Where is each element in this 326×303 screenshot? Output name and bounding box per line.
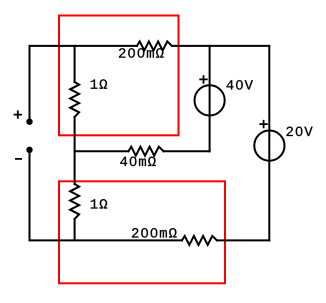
resistor 1 Ohm lower (70, 184, 79, 219)
source V2 20V circle (254, 131, 284, 161)
value label 20V (286, 127, 312, 137)
resistor 200mOhm bottom (182, 236, 217, 245)
value label 200mOhm bottom (132, 228, 177, 238)
wire bottom horizontal right (217, 239, 269, 241)
wire 40V branch vertical (209, 46, 211, 151)
wire inner vertical upper (74, 46, 76, 82)
wire top-left horizontal (30, 45, 138, 47)
value label 1 Ohm upper (91, 79, 107, 88)
resistor 1 Ohm upper (70, 82, 79, 117)
wire top-right horizontal (172, 45, 269, 47)
wire right vertical (268, 46, 270, 241)
label - terminal (16, 158, 21, 160)
wire left vertical lower (from - terminal) (29, 150, 31, 241)
wire left vertical upper (to + terminal) (29, 46, 31, 122)
annotation box 2 (bottom red rectangle) (59, 181, 225, 283)
label + terminal (15, 111, 22, 118)
wire middle horizontal right (164, 150, 210, 152)
value label 40mOhm (120, 157, 156, 167)
wire inner vertical bottom (74, 219, 76, 240)
value label 1 Ohm lower (91, 199, 107, 208)
annotation box 1 (top red rectangle) (59, 16, 179, 136)
node + terminal dot (26, 119, 32, 125)
wire bottom horizontal left (30, 239, 183, 241)
label + of 40V source (200, 76, 207, 83)
node - terminal dot (26, 147, 32, 153)
value label 40V (227, 80, 253, 90)
source V1 40V circle (195, 85, 225, 115)
resistor 40mOhm (129, 147, 164, 156)
label + of 20V source (260, 121, 267, 128)
wire inner vertical middle (74, 117, 76, 184)
value label 200mOhm top (119, 48, 164, 58)
resistor 200mOhm top (137, 41, 172, 50)
wire middle horizontal left (75, 150, 129, 152)
